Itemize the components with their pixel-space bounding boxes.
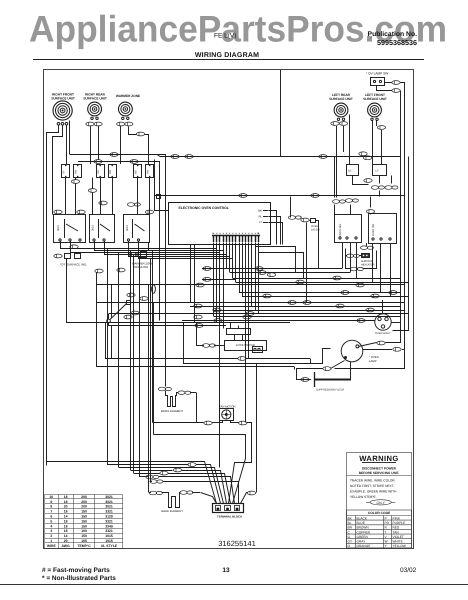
wire node drop A xyxy=(105,323,107,359)
infinite switch WZ pair xyxy=(134,165,142,178)
svg-text:BR: BR xyxy=(348,526,353,530)
svg-text:EXAMPLE: GREEN WIRE WITH: EXAMPLE: GREEN WIRE WITH xyxy=(350,490,397,494)
oven selector switch box xyxy=(335,215,362,243)
svg-text:5: 5 xyxy=(50,519,52,523)
surface unit RR (right rear element) xyxy=(88,102,102,116)
svg-text:3321: 3321 xyxy=(105,529,113,533)
bottom-left wire table xyxy=(45,494,124,549)
svg-text:03/02: 03/02 xyxy=(400,567,417,574)
svg-text:VIOLET: VIOLET xyxy=(393,535,404,539)
svg-text:150: 150 xyxy=(81,510,87,514)
wire node drop B xyxy=(111,326,113,359)
svg-text:150: 150 xyxy=(81,534,87,538)
wire top center vertical xyxy=(280,70,282,156)
wire lock bottom run xyxy=(105,358,238,360)
oven indicator cluster xyxy=(360,246,373,250)
svg-text:FE L(V): FE L(V) xyxy=(214,33,236,40)
connector oval below LF xyxy=(377,126,385,130)
bake element xyxy=(149,492,151,494)
svg-text:3321: 3321 xyxy=(105,510,113,514)
svg-text:TEMP°C: TEMP°C xyxy=(77,544,91,548)
color code table xyxy=(347,510,412,548)
svg-text:LOCK MOTOR: LOCK MOTOR xyxy=(236,343,255,347)
left feed wire f3 xyxy=(119,468,224,504)
wire node diagonal xyxy=(110,304,127,320)
svg-text:INDICATOR: INDICATOR xyxy=(361,263,375,266)
ovals mid wires xyxy=(127,293,135,297)
svg-text:SURFACE UNIT: SURFACE UNIT xyxy=(329,97,353,101)
svg-text:1015: 1015 xyxy=(105,539,113,543)
main frame xyxy=(44,70,414,549)
svg-text:NOTED FIRST, STRIPE NEXT.: NOTED FIRST, STRIPE NEXT. xyxy=(350,484,394,488)
svg-text:PR: PR xyxy=(385,521,390,525)
svg-text:AWG: AWG xyxy=(62,544,70,548)
svg-text:14: 14 xyxy=(64,515,68,519)
svg-text:18: 18 xyxy=(64,524,68,528)
bake right connector oval xyxy=(180,491,193,495)
oven lamp switch SW1 xyxy=(371,78,385,86)
svg-text:3021: 3021 xyxy=(105,500,113,504)
right stair wires below EOC xyxy=(256,247,296,273)
connector oval xyxy=(88,189,96,193)
wire EOC underside B xyxy=(194,245,196,322)
svg-text:PINK: PINK xyxy=(393,516,401,520)
connector ovals below RR xyxy=(86,122,94,126)
svg-text:TRACER WIRE: WIRE COLOR: TRACER WIRE: WIRE COLOR xyxy=(350,479,395,483)
connector ovals row y270 xyxy=(95,269,103,273)
bus y161.5 xyxy=(78,161,158,163)
svg-text:BL: BL xyxy=(348,521,352,525)
wires oven light xyxy=(366,320,375,322)
bus line y195.5 long xyxy=(154,195,404,197)
svg-text:W: W xyxy=(385,540,388,544)
svg-text:150: 150 xyxy=(81,524,87,528)
svg-text:WHITE: WHITE xyxy=(393,540,403,544)
connector ovals below right switches xyxy=(364,179,372,183)
svg-text:100: 100 xyxy=(81,529,87,533)
broil right connector oval xyxy=(178,391,191,395)
svg-text:3321: 3321 xyxy=(105,519,113,523)
svg-text:WARMER ZONE: WARMER ZONE xyxy=(116,94,140,98)
left feed wire f5 xyxy=(134,473,160,475)
wires lamp xyxy=(359,343,377,347)
warmer zone indicator xyxy=(128,253,131,256)
svg-text:3: 3 xyxy=(50,529,52,533)
bus y302.5 with node xyxy=(96,302,404,304)
svg-text:COLOR CODE: COLOR CODE xyxy=(368,511,391,515)
door lock bar xyxy=(227,329,251,335)
wire right vertical bus C xyxy=(393,157,409,331)
svg-text:18: 18 xyxy=(64,500,68,504)
svg-text:SURFACE UNIT: SURFACE UNIT xyxy=(51,97,75,101)
EOC pin connector strip xyxy=(212,235,260,237)
svg-text:200: 200 xyxy=(81,505,87,509)
svg-text:SURFACE UNIT: SURFACE UNIT xyxy=(83,97,107,101)
svg-text:SUPPRESSION FILTER: SUPPRESSION FILTER xyxy=(316,389,344,392)
wire EOC top left xyxy=(155,160,169,211)
svg-text:BEFORE SERVICING UNIT.: BEFORE SERVICING UNIT. xyxy=(359,471,400,475)
svg-text:P: P xyxy=(385,516,387,520)
svg-text:UL STYLE: UL STYLE xyxy=(101,544,118,548)
wire to right edge xyxy=(401,83,405,91)
wire main bus upper xyxy=(157,155,400,157)
svg-text:TERMINAL BLOCK: TERMINAL BLOCK xyxy=(217,515,242,519)
svg-text:9: 9 xyxy=(50,500,52,504)
wires door sw xyxy=(269,211,277,245)
EOC underside verticals xyxy=(190,245,192,302)
svg-text:FAN MOTOR: FAN MOTOR xyxy=(219,405,236,409)
svg-text:INDICATOR: INDICATOR xyxy=(133,265,148,269)
svg-text:T: T xyxy=(385,530,387,534)
oven door switch cluster xyxy=(288,216,301,220)
connector oval below row2 box1 xyxy=(70,245,78,249)
lock cluster wires xyxy=(184,323,331,364)
surface unit LF (left front element) xyxy=(368,103,382,117)
fan right wire to terminal block xyxy=(229,423,252,504)
svg-text:316255141: 316255141 xyxy=(218,539,256,548)
svg-text:ELECTRONIC OVEN CONTROL: ELECTRONIC OVEN CONTROL xyxy=(179,206,229,210)
svg-text:8: 8 xyxy=(50,505,52,509)
svg-text:OVEN SEL: OVEN SEL xyxy=(339,223,342,237)
svg-text:* = Non-Illustrated Parts: * = Non-Illustrated Parts xyxy=(42,575,116,582)
broil element xyxy=(158,387,171,391)
warning box xyxy=(347,453,412,549)
connector ovals lamp area xyxy=(377,341,385,345)
svg-text:3021: 3021 xyxy=(105,495,113,499)
svg-text:3129: 3129 xyxy=(105,515,113,519)
wires from EOC pins down xyxy=(213,243,215,317)
wire right vertical bus B xyxy=(335,91,405,369)
fan left feed wire xyxy=(153,422,204,424)
fan motor side connector ovals xyxy=(204,421,212,425)
svg-text:18: 18 xyxy=(64,510,68,514)
right switch LR box xyxy=(347,165,359,176)
svg-text:LAMP: LAMP xyxy=(369,359,377,363)
bus y154.5 xyxy=(70,154,157,156)
svg-text:7: 7 xyxy=(50,510,52,514)
wires RR down xyxy=(90,126,92,164)
svg-text:20: 20 xyxy=(64,505,68,509)
svg-text:18: 18 xyxy=(64,495,68,499)
infinite switch RR pair xyxy=(97,165,105,178)
svg-text:18: 18 xyxy=(64,529,68,533)
svg-text:14: 14 xyxy=(64,534,68,538)
connector ovals above right switches xyxy=(359,152,367,156)
wires right mid xyxy=(353,176,369,185)
wire suppressor feed run xyxy=(96,366,294,368)
svg-text:200: 200 xyxy=(81,500,87,504)
surface unit RF label xyxy=(51,93,387,102)
svg-text:200: 200 xyxy=(81,495,87,499)
svg-text:ORANGE: ORANGE xyxy=(357,544,371,548)
wires from right boxes down to stack xyxy=(342,243,344,269)
svg-text:LT: LT xyxy=(259,220,262,224)
svg-text:BLACK: BLACK xyxy=(357,516,368,520)
lock motor box xyxy=(225,341,267,351)
wires row2 boxes down to bundle xyxy=(61,241,217,249)
wire indicator bus riser xyxy=(67,259,291,323)
oven lamp circle xyxy=(341,340,363,362)
surface switch WZ box xyxy=(124,215,150,243)
svg-text:WZ: WZ xyxy=(135,170,138,174)
svg-text:TAN: TAN xyxy=(393,530,400,534)
wires RF down xyxy=(47,126,59,466)
svg-text:3021: 3021 xyxy=(126,225,129,231)
svg-text:BAKE ELEMENT: BAKE ELEMENT xyxy=(162,509,184,513)
connector oval left of lock motor xyxy=(202,344,215,348)
electronic oven control EOC xyxy=(169,203,271,245)
svg-text:4: 4 xyxy=(50,524,52,528)
svg-text:2: 2 xyxy=(50,534,52,538)
EOC terminal labels xyxy=(258,209,262,225)
svg-text:6: 6 xyxy=(50,515,52,519)
svg-text:GRAY: GRAY xyxy=(357,540,367,544)
svg-text:1015: 1015 xyxy=(105,534,113,538)
svg-text:YELLOW: YELLOW xyxy=(393,544,406,548)
svg-text:Publication No.: Publication No. xyxy=(368,31,418,38)
connector ovals below WZ xyxy=(117,122,125,126)
svg-text:3021: 3021 xyxy=(105,505,113,509)
title underline xyxy=(33,59,424,61)
svg-text:* OV LAMP SW: * OV LAMP SW xyxy=(366,72,388,76)
connector ovals above row2 xyxy=(54,210,62,214)
oval above right lower box xyxy=(366,210,374,214)
svg-text:LR: LR xyxy=(348,170,351,173)
wire lamp sw bottom xyxy=(377,86,392,91)
connector oval WZ feed xyxy=(136,132,144,136)
connector oval xyxy=(392,89,400,93)
wire from lock area down to right oval xyxy=(256,364,258,493)
svg-text:RR: RR xyxy=(97,170,100,174)
connector oval xyxy=(392,81,400,85)
svg-text:DISCONNECT POWER: DISCONNECT POWER xyxy=(362,467,397,471)
svg-text:BLUE: BLUE xyxy=(357,521,365,525)
svg-text:13: 13 xyxy=(222,567,230,574)
terminal block xyxy=(213,504,244,513)
svg-text:GREEN: GREEN xyxy=(357,535,369,539)
hot surface indicator cluster xyxy=(54,254,62,258)
suppressor xyxy=(296,379,311,381)
svg-text:PL: PL xyxy=(259,215,263,219)
svg-text:3021: 3021 xyxy=(92,225,95,231)
wires sw row1 to row2 xyxy=(65,178,67,214)
svg-text:OVEN LIGHT: OVEN LIGHT xyxy=(375,332,391,335)
surface switch RF box xyxy=(54,215,86,243)
surface unit RF (right front element) xyxy=(53,101,72,120)
long bus y285 xyxy=(96,284,404,286)
svg-text:20: 20 xyxy=(64,539,68,543)
svg-text:105: 105 xyxy=(81,539,87,543)
bake upper feed line xyxy=(150,480,163,484)
svg-text:LF: LF xyxy=(376,170,379,173)
wire lamp sw to right xyxy=(384,82,392,84)
surface unit LR (left rear element) xyxy=(334,103,348,117)
svg-text:18: 18 xyxy=(64,519,68,523)
svg-text:RED: RED xyxy=(393,526,400,530)
right switch LF box xyxy=(373,165,387,176)
svg-text:WARNING: WARNING xyxy=(359,454,399,463)
svg-text:150: 150 xyxy=(81,515,87,519)
left feed wire f4 xyxy=(131,470,173,472)
right horizontal stack xyxy=(202,268,342,270)
wire right vertical bus A xyxy=(387,91,401,343)
svg-text:5995368536: 5995368536 xyxy=(377,38,417,47)
left mid verticals xyxy=(96,273,98,367)
wires WZ down xyxy=(120,126,122,164)
GN-Y tracer oval xyxy=(370,500,391,505)
oven thermostat box xyxy=(369,214,397,244)
svg-text:PURPLE: PURPLE xyxy=(393,521,406,525)
svg-text:WIRE: WIRE xyxy=(47,544,57,548)
svg-text:# = Fast-moving Parts: # = Fast-moving Parts xyxy=(42,567,110,574)
svg-text:BROIL ELEMENT: BROIL ELEMENT xyxy=(161,409,184,413)
svg-text:YELLOW STRIPE.: YELLOW STRIPE. xyxy=(350,495,377,499)
svg-text:COPPER: COPPER xyxy=(357,530,371,534)
svg-text:*OT SURFACE IND.: *OT SURFACE IND. xyxy=(60,263,87,267)
left feed wire f2 xyxy=(108,464,189,466)
surface switch RR box xyxy=(90,215,115,243)
oven light receptacle xyxy=(375,314,391,330)
svg-text:10: 10 xyxy=(49,495,53,499)
svg-text:WIRING DIAGRAM: WIRING DIAGRAM xyxy=(195,52,259,59)
wires LR LF circles down to switches xyxy=(336,126,338,164)
connector ovals below LR xyxy=(331,122,339,126)
svg-text:3021: 3021 xyxy=(57,225,60,231)
left feed wire f1 xyxy=(47,462,217,504)
svg-text:OVEN SW: OVEN SW xyxy=(372,223,375,236)
left feed wire f6 xyxy=(140,476,149,478)
svg-text:SURFACE UNIT: SURFACE UNIT xyxy=(363,97,387,101)
connector vertical oval xyxy=(152,285,156,293)
svg-text:GN-Y: GN-Y xyxy=(376,501,385,505)
surface unit WZ (warmer zone element) xyxy=(119,102,133,116)
infinite switch RF pair xyxy=(62,165,70,178)
svg-text:3349: 3349 xyxy=(105,524,113,528)
svg-text:BK: BK xyxy=(258,209,262,213)
svg-text:150: 150 xyxy=(81,519,87,523)
connector oval below sw row xyxy=(71,180,79,184)
svg-text:1: 1 xyxy=(50,539,52,543)
wire loop rect1 xyxy=(154,435,246,504)
svg-text:BROWN: BROWN xyxy=(357,526,370,530)
svg-text:RF: RF xyxy=(63,170,66,174)
